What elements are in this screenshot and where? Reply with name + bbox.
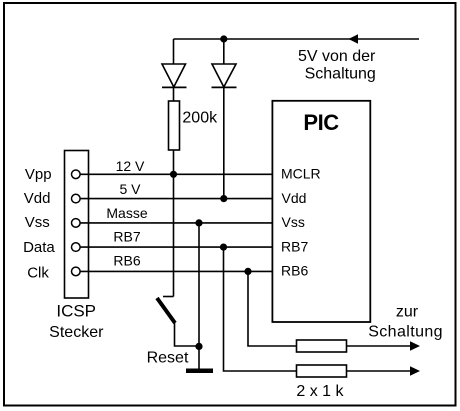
svg-text:2 x 1 k: 2 x 1 k	[296, 383, 344, 400]
svg-text:zur: zur	[396, 304, 419, 321]
svg-text:Schaltung: Schaltung	[368, 323, 443, 340]
svg-text:Masse: Masse	[106, 205, 147, 221]
node: junction dot on top rail	[220, 35, 227, 42]
wire: top 5V rail from left diode to right edge	[174, 38, 420, 40]
svg-text:Vss: Vss	[282, 214, 305, 230]
wire: left diode to resistor 200k	[173, 87, 175, 101]
svg-text:Vpp: Vpp	[25, 166, 52, 183]
resistor 200k	[169, 101, 180, 150]
PIC box U1	[272, 101, 370, 322]
wire: lower 1k to arrow	[347, 370, 411, 372]
svg-text:RB6: RB6	[113, 253, 140, 269]
wire: right diode down to 5V wire	[223, 87, 225, 199]
pin Vss circle	[72, 219, 81, 228]
arrowhead on top rail (points left, current from Schaltung)	[349, 34, 359, 43]
node: dot RB6 branch junction	[244, 268, 251, 275]
node: dot 12V / 200k junction	[170, 171, 177, 178]
reset switch: actuator (thick diagonal)	[157, 298, 175, 323]
svg-text:200k: 200k	[182, 109, 218, 126]
resistor 1k (lower)	[297, 365, 347, 377]
wire: upper 1k to arrow	[347, 345, 411, 347]
svg-text:Schaltung: Schaltung	[305, 66, 376, 83]
wire: RB7 branch down and right to lower 1k resistor	[224, 247, 297, 371]
reset switch: bottom lead	[175, 322, 200, 346]
node: dot Masse / ground junction	[195, 219, 202, 226]
ICSP connector box	[65, 151, 89, 299]
svg-text:RB7: RB7	[281, 238, 308, 254]
svg-text:Vdd: Vdd	[24, 190, 51, 207]
wire: right diode riser to top rail	[223, 39, 225, 64]
svg-text:RB7: RB7	[113, 229, 140, 245]
svg-text:Reset: Reset	[147, 349, 189, 366]
node: dot switch/ground junction	[195, 343, 202, 350]
wire: Data/RB7 to PIC RB7	[80, 246, 272, 248]
svg-text:Vdd: Vdd	[282, 190, 307, 206]
svg-text:5V von der: 5V von der	[298, 48, 376, 65]
wire: Vdd/5V to PIC Vdd	[80, 198, 272, 200]
svg-text:ICSP: ICSP	[56, 301, 96, 320]
node: dot 5V / right diode junction	[220, 195, 227, 202]
wire: Clk/RB6 to PIC RB6	[80, 270, 272, 272]
svg-text:Data: Data	[23, 239, 55, 256]
diode D-right (cathode down)	[212, 64, 237, 87]
svg-text:12 V: 12 V	[116, 158, 145, 174]
svg-text:Vss: Vss	[25, 214, 50, 231]
wire: Vpp/12V to PIC MCLR	[80, 173, 272, 175]
diode D-left (cathode down)	[162, 64, 187, 87]
svg-text:5 V: 5 V	[119, 181, 141, 197]
pin Clk circle	[72, 267, 81, 276]
node: dot RB7 branch junction	[220, 244, 227, 251]
ground symbol	[186, 369, 213, 374]
wire: left diode riser to top rail	[173, 39, 175, 64]
wire: RB6 branch down and right to upper 1k resistor	[248, 271, 297, 346]
arrowhead: upper output to Schaltung	[410, 341, 420, 350]
svg-text:PIC: PIC	[303, 110, 339, 135]
pin Data circle	[72, 243, 81, 252]
svg-text:MCLR: MCLR	[281, 166, 321, 182]
wire: Vss/Masse to PIC Vss	[80, 222, 272, 224]
svg-text:Stecker: Stecker	[49, 324, 104, 341]
pin Vdd circle	[72, 194, 81, 203]
resistor 1k (upper)	[297, 340, 347, 352]
svg-text:RB6: RB6	[281, 263, 308, 279]
svg-text:Clk: Clk	[27, 264, 49, 281]
arrowhead: lower output to Schaltung	[410, 366, 420, 375]
pin Vpp circle	[72, 170, 81, 179]
reset switch: fixed contact jog	[163, 296, 174, 298]
wire: Masse down to ground	[198, 223, 200, 369]
wire: 200k down through 12V node to reset switch	[173, 150, 175, 297]
